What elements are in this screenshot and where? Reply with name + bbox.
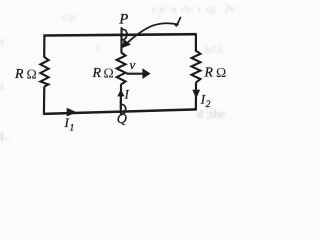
current arrow I1 head (rightward on bottom wire) — [67, 108, 77, 117]
arrow v (to the right) — [126, 73, 143, 75]
svg-text:Ω: Ω — [216, 65, 226, 80]
svg-text:I: I — [124, 88, 130, 102]
svg-text:R: R — [204, 65, 214, 80]
svg-text:L.: L. — [0, 131, 10, 143]
faint bleedthrough text top-right — [152, 1, 235, 16]
svg-text::!: :! — [0, 38, 4, 49]
svg-text:;i: ;i — [0, 82, 4, 93]
svg-text:Ω: Ω — [27, 66, 37, 81]
svg-text:.lv: .lv — [223, 1, 235, 15]
wire right upper — [195, 34, 197, 52]
svg-text:ls!:i: ls!:i — [205, 44, 222, 56]
svg-text:1: 1 — [70, 124, 75, 134]
svg-text:d ;the: d ;the — [197, 107, 226, 121]
node Q junction blob — [121, 104, 126, 114]
svg-text:v: v — [130, 57, 136, 72]
wire left upper — [43, 35, 45, 58]
svg-text:r:e' n rb: t sp: r:e' n rb: t sp — [152, 4, 216, 16]
svg-text:R: R — [92, 65, 102, 80]
wire middle lower — [120, 84, 122, 109]
current arrow I2 head (downward on right wire) — [192, 90, 200, 99]
curved arrow from I into node P — [125, 23, 178, 45]
resistor R3 (right, R ohm) zigzag — [192, 51, 201, 83]
wire left lower — [43, 86, 46, 114]
svg-text:Ω: Ω — [104, 65, 114, 80]
svg-text:n;je: n;je — [62, 12, 78, 23]
svg-text:R: R — [14, 66, 24, 81]
wire bottom — [43, 109, 196, 114]
resistor R1 (left, R ohm) zigzag — [40, 57, 48, 87]
svg-text:P: P — [118, 12, 128, 28]
resistor R2 (middle, R ohm) zigzag — [117, 53, 126, 85]
wire middle upper (P drop) — [120, 27, 122, 53]
svg-text:2: 2 — [206, 100, 211, 110]
wire top — [43, 34, 196, 35]
svg-text:Q: Q — [117, 112, 127, 127]
node P junction blob — [122, 29, 127, 40]
label I (top current, cursive l) — [175, 17, 181, 27]
current arrow I (middle, upward) — [120, 95, 122, 107]
wire right lower — [195, 82, 197, 110]
svg-text::e: :e — [94, 42, 101, 52]
